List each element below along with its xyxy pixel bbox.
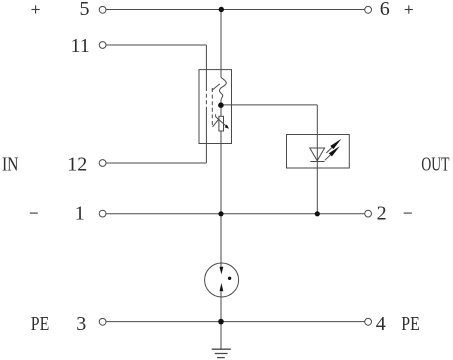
svg-text:3: 3 xyxy=(76,313,86,335)
svg-text:IN: IN xyxy=(2,153,19,175)
svg-text:OUT: OUT xyxy=(421,153,449,175)
svg-text:PE: PE xyxy=(31,313,50,335)
svg-text:12: 12 xyxy=(67,154,87,176)
svg-text:2: 2 xyxy=(377,203,387,225)
svg-text:5: 5 xyxy=(80,0,90,20)
svg-text:6: 6 xyxy=(380,0,390,20)
svg-text:1: 1 xyxy=(75,203,85,225)
svg-text:11: 11 xyxy=(70,35,89,57)
svg-text:PE: PE xyxy=(401,313,420,335)
svg-text:4: 4 xyxy=(376,313,386,335)
